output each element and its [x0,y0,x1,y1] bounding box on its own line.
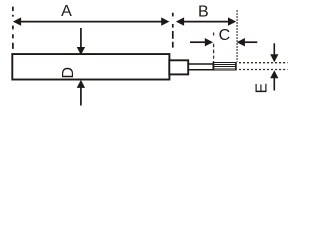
svg-text:C: C [219,27,231,44]
svg-text:D: D [60,67,77,79]
dimension D bottom line [80,86,82,106]
dimension B left arrowhead [176,17,184,25]
dimension B line [182,21,230,23]
extension line at thread start (dashed) [213,33,215,63]
dimension A left arrowhead [13,17,21,25]
dimension A right arrowhead [161,17,169,25]
svg-text:E: E [254,83,271,93]
dimension A line [19,21,163,23]
dimension E top arrowhead (pointing down) [270,54,278,62]
dimension E bottom line [273,77,275,91]
shoulder (stepped section) [169,60,188,74]
svg-text:B: B [198,3,209,20]
dimension C right arrowhead (pointing left) [237,38,245,46]
dotted line thread bottom (E reference) [239,69,288,71]
extension line at body right end (dashed) [172,13,174,48]
extension line at thread end (dotted) [236,10,238,62]
dimension C left leader line [190,41,206,43]
shank top line [188,63,214,65]
dotted line thread top (E reference) [239,62,288,64]
svg-text:A: A [61,3,72,20]
extension line left (dashed, at body left edge) [12,7,14,49]
shank bottom line [188,69,214,71]
dimension E top line [273,43,275,56]
dimension E bottom arrowhead (pointing up) [270,70,278,78]
thread block [213,62,237,70]
dimension B right arrowhead [228,17,236,25]
dimension D bottom arrowhead (pointing up) [77,80,85,88]
dimension D top line [80,28,82,48]
body outline (main cylinder) [12,54,169,79]
dimension C right leader line [244,41,258,43]
dimension D top arrowhead (pointing down) [77,47,85,55]
dimension C left arrowhead (pointing right) [205,38,213,46]
